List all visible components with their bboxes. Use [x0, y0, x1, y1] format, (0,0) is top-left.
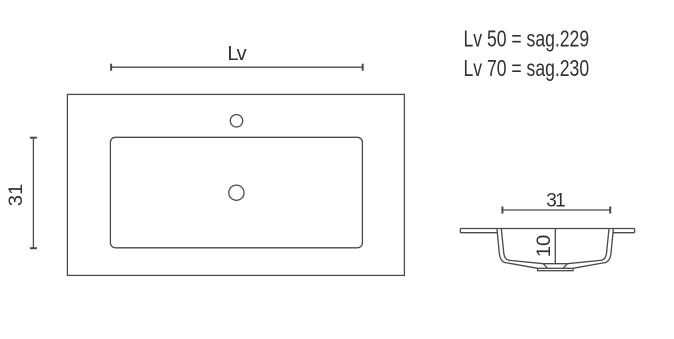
svg-text:Lv 70 = sag.230: Lv 70 = sag.230	[464, 55, 590, 81]
tick top of 31 dimension	[30, 137, 37, 139]
basin centerline (section)	[554, 229, 556, 264]
tick left of Lv dimension	[110, 64, 112, 71]
right wing edge cap (section)	[634, 229, 636, 233]
drain hole	[229, 185, 244, 200]
drain funnel top edge (section)	[543, 263, 567, 265]
left wing edge cap (section)	[459, 229, 461, 233]
tick right of Lv dimension	[362, 64, 364, 71]
bowl right outer wall (section)	[573, 229, 614, 269]
dimension line 31 (left, vertical)	[32, 138, 34, 249]
left wing bottom line (section)	[460, 232, 497, 234]
svg-text:Lv 50 = sag.229: Lv 50 = sag.229	[464, 25, 590, 51]
svg-text:31: 31	[546, 191, 566, 212]
faucet hole	[230, 115, 242, 127]
bowl left outer wall (section)	[497, 229, 538, 269]
drain funnel left side (section)	[543, 264, 547, 269]
dimension line Lv (top)	[111, 66, 363, 68]
right wing bottom line (section)	[613, 232, 635, 234]
countertop deck top line (section)	[460, 228, 634, 230]
basin inner bowl (plan view)	[110, 137, 362, 248]
basin outer rim (plan view)	[67, 94, 404, 275]
tick left of section 31 dimension	[501, 207, 503, 214]
dimension line 31 (section, top)	[502, 209, 610, 211]
svg-text:Lv: Lv	[227, 43, 246, 65]
drain flange plate (section)	[538, 268, 573, 270]
tick bottom of 31 dimension	[30, 247, 37, 249]
svg-text:10: 10	[534, 235, 555, 258]
bowl right inner wall (section)	[567, 229, 609, 264]
tick right of section 31 dimension	[609, 207, 611, 214]
drain funnel right side (section)	[563, 264, 567, 269]
svg-text:31: 31	[6, 184, 27, 207]
bowl left inner wall (section)	[501, 229, 543, 264]
